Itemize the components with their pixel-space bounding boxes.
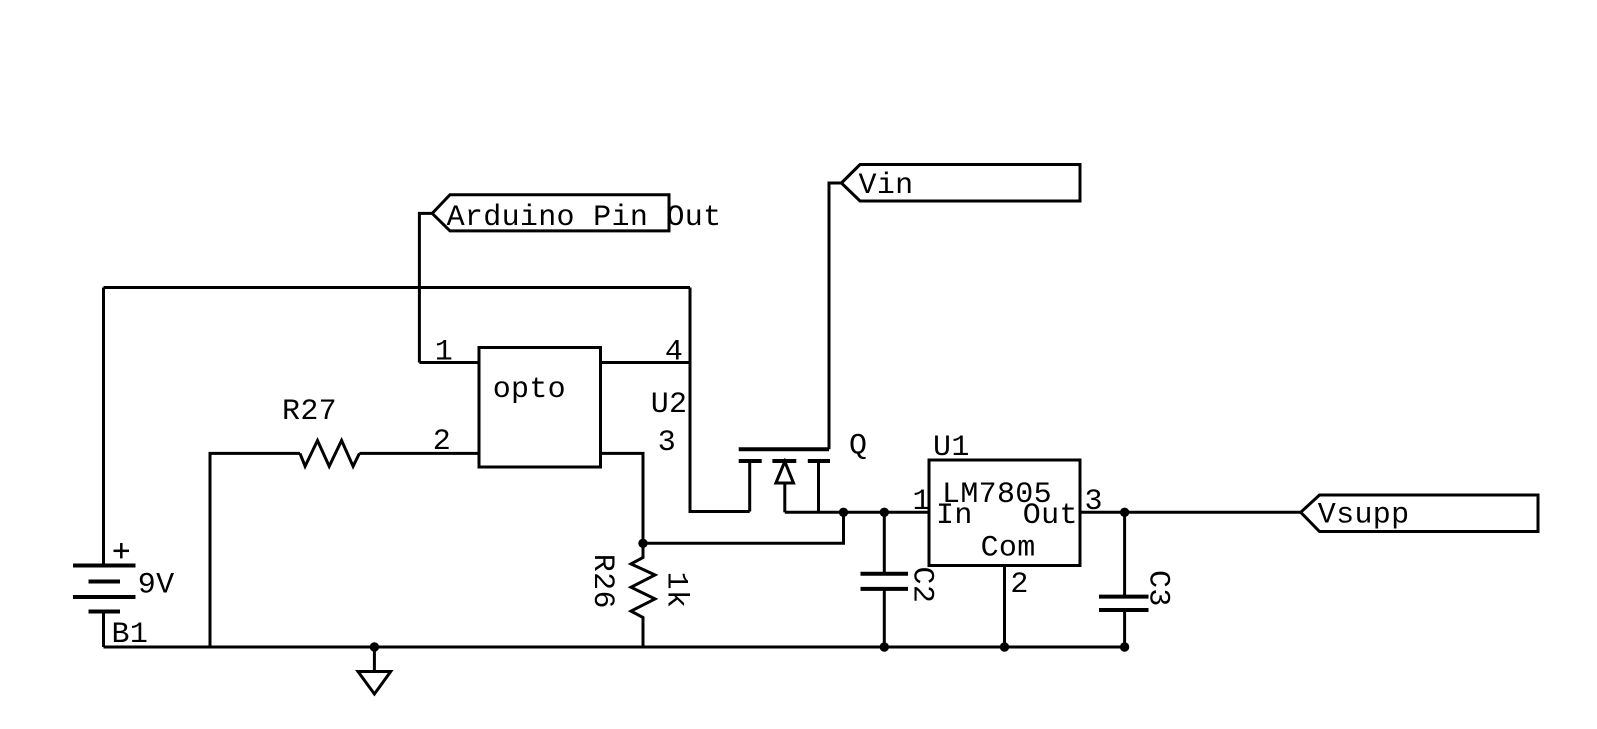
wire R27 to opto pin2	[359, 452, 479, 455]
wire gate to Vin flag	[829, 183, 841, 449]
battery B1 plate long 2	[73, 595, 136, 599]
junction C3 to ground rail	[1120, 642, 1129, 651]
junction C2 to ground rail	[880, 642, 889, 651]
capacitor C2 plate bottom	[861, 587, 909, 591]
junction node C3 top	[1120, 508, 1129, 517]
wire R27 left leg to ground rail	[210, 453, 300, 647]
svg-text:C2: C2	[905, 567, 939, 604]
resistor R27	[300, 441, 359, 467]
wire U1 Out to Vsupp	[1080, 511, 1301, 514]
battery B1 plate short 1	[89, 580, 121, 584]
MOSFET Q body arrow	[776, 462, 794, 484]
wire battery negative	[102, 612, 105, 648]
wire battery positive to top rail	[102, 288, 105, 566]
net flag Vsupp	[1301, 495, 1538, 532]
MOSFET Q drain stub	[817, 461, 820, 512]
svg-text:2: 2	[1010, 568, 1028, 602]
ground	[373, 647, 376, 672]
MOSFET Q source stub	[748, 461, 751, 512]
wire opto pin3 down	[601, 453, 644, 543]
wire opto pin4 to rail drop	[601, 361, 691, 364]
wire C3 bottom	[1123, 612, 1126, 648]
svg-text:Q: Q	[849, 430, 867, 464]
svg-text:Out: Out	[1023, 499, 1078, 533]
svg-text:3: 3	[1085, 485, 1103, 519]
junction node MOSFET drain	[839, 508, 848, 517]
junction node R26 top	[638, 539, 647, 548]
wire node R26 top to MOSFET drain	[643, 512, 844, 543]
junction node C2 top	[880, 508, 889, 517]
MOSFET Q channel segment body	[772, 459, 796, 463]
capacitor C3 plate top	[1099, 595, 1149, 599]
capacitor C2 plate top	[861, 572, 909, 576]
MOSFET Q gate bar	[739, 447, 829, 451]
svg-text:Com: Com	[981, 531, 1036, 565]
svg-text:1: 1	[435, 336, 453, 370]
svg-text:In: In	[936, 499, 973, 533]
capacitor C3 plate bottom	[1099, 608, 1149, 612]
net flag Vin	[841, 165, 1080, 202]
svg-text:R26: R26	[585, 554, 619, 609]
wire rail drop to MOSFET source	[690, 288, 750, 512]
wire Arduino Pin Out net to opto pin1	[419, 213, 432, 362]
wire C2 bottom	[883, 591, 886, 648]
svg-text:C3: C3	[1141, 570, 1175, 607]
svg-text:9V: 9V	[138, 568, 175, 602]
wire C3 top	[1123, 512, 1126, 595]
svg-text:U1: U1	[933, 431, 970, 465]
battery B1 plate long top	[73, 564, 136, 568]
MOSFET Q channel segment drain	[808, 459, 830, 463]
wire opto pin1	[419, 361, 479, 364]
svg-text:Vsupp: Vsupp	[1318, 499, 1410, 533]
net flag Arduino Pin Out	[432, 195, 669, 231]
svg-text:Arduino Pin Out: Arduino Pin Out	[447, 201, 722, 235]
svg-text:4: 4	[665, 336, 683, 370]
svg-text:2: 2	[433, 425, 451, 459]
regulator U1 body	[929, 460, 1080, 566]
resistor R26	[631, 543, 655, 647]
svg-text:1: 1	[913, 485, 931, 519]
wire U1 Com to ground rail	[1003, 566, 1006, 648]
wire ground rail	[104, 646, 1125, 649]
svg-text:R27: R27	[282, 395, 337, 429]
MOSFET Q body stub	[783, 483, 786, 512]
wire C2 top	[883, 512, 886, 572]
wire top rail	[104, 286, 691, 289]
svg-text:3: 3	[658, 426, 676, 460]
junction ground symbol	[370, 642, 379, 651]
svg-text:1k: 1k	[659, 572, 693, 609]
svg-text:opto: opto	[493, 373, 566, 407]
battery B1 plate short 2	[89, 610, 121, 614]
junction U1 Com to ground rail	[1000, 642, 1009, 651]
opto-isolator U2 body	[479, 348, 601, 468]
svg-text:Vin: Vin	[859, 169, 914, 203]
wire MOSFET drain to U1 In	[785, 511, 929, 514]
MOSFET Q channel segment source	[739, 459, 762, 463]
polarity mark +	[114, 550, 130, 553]
svg-text:U2: U2	[651, 388, 688, 422]
